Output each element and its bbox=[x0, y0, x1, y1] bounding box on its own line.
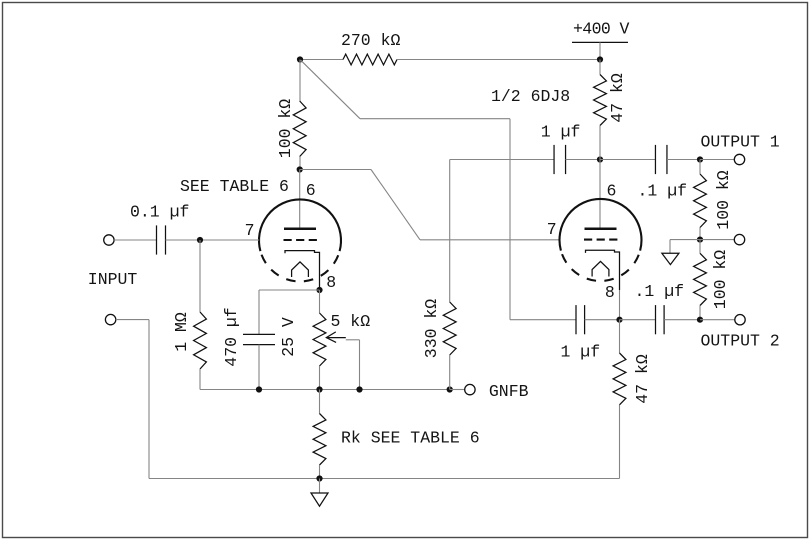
svg-text:25 V: 25 V bbox=[279, 317, 298, 357]
resistor R 47 kΩ (top) bbox=[594, 75, 607, 126]
node wiper on rail bbox=[356, 386, 362, 392]
triode U1b heater chevron bbox=[592, 261, 609, 276]
potentiometer R 5 kΩ bbox=[313, 313, 326, 366]
terminal divider center bbox=[734, 234, 744, 244]
+400 V supply bar bbox=[572, 41, 628, 43]
svg-text:8: 8 bbox=[326, 273, 336, 292]
wire rail to GNFB terminal bbox=[450, 389, 465, 391]
wire .1uf to output 2 node bbox=[664, 319, 700, 321]
wire to output 1 terminal bbox=[700, 159, 734, 161]
node 330k on rail bbox=[447, 386, 453, 392]
capacitor C .1 µf (bottom) bbox=[655, 305, 657, 334]
wire 100k bottom lead bbox=[299, 157, 301, 170]
node at +400V / 47k top bbox=[597, 56, 603, 62]
wire 270k right lead bbox=[397, 59, 600, 61]
svg-text:1 MΩ: 1 MΩ bbox=[172, 312, 191, 352]
capacitor C 1 µf (top) bbox=[553, 145, 555, 174]
input terminal 2 bbox=[105, 314, 115, 324]
node output 1 junction bbox=[697, 156, 703, 162]
wire ground stub right bbox=[670, 239, 700, 241]
wire cap to plate node bbox=[566, 159, 601, 161]
wire 47k-bottom top lead bbox=[619, 320, 621, 353]
wire 330k bottom lead bbox=[449, 355, 451, 390]
triode U1b plate bbox=[585, 227, 617, 230]
wire input2 down bbox=[148, 320, 150, 479]
node grid junction bbox=[197, 237, 203, 243]
node cathode/output junction bbox=[616, 317, 622, 323]
svg-text:270 kΩ: 270 kΩ bbox=[341, 31, 401, 50]
svg-text:8: 8 bbox=[605, 283, 615, 302]
svg-text:.1 µf: .1 µf bbox=[635, 282, 685, 301]
resistor Rk bbox=[313, 414, 326, 466]
wire 100k-lower top lead bbox=[699, 240, 701, 254]
node divider center bbox=[697, 237, 703, 243]
svg-text:7: 7 bbox=[547, 220, 557, 239]
wire cap to grid node bbox=[166, 239, 260, 241]
node Rk bottom rail bbox=[316, 475, 322, 481]
svg-text:1/2 6DJ8: 1/2 6DJ8 bbox=[491, 87, 570, 106]
node right plate junction bbox=[597, 156, 603, 162]
wire 100k-upper bottom lead bbox=[699, 228, 701, 240]
node at top of 100k (junction 270k/100k/bootstrap) bbox=[297, 56, 303, 62]
resistor R 270 kΩ bbox=[343, 54, 397, 65]
wire 270k left lead bbox=[300, 59, 343, 61]
capacitor C1 0.1 µf bbox=[156, 225, 158, 254]
terminal OUTPUT 2 bbox=[735, 315, 745, 325]
wire right plate lead bbox=[599, 160, 601, 229]
triode U1a grid (dashed) bbox=[284, 239, 318, 241]
wire 100k top lead bbox=[299, 60, 301, 102]
svg-text:100 kΩ: 100 kΩ bbox=[276, 99, 295, 159]
resistor R 1 MΩ bbox=[194, 312, 207, 369]
triode U1b cathode bbox=[586, 250, 620, 290]
wire down to 470uf bbox=[258, 290, 260, 334]
svg-text:Rk SEE TABLE 6: Rk SEE TABLE 6 bbox=[341, 429, 480, 448]
wire ground stub bbox=[319, 479, 321, 494]
terminal GNFB bbox=[465, 384, 475, 394]
wire to output 2 terminal bbox=[700, 319, 735, 321]
ground symbol (bottom) bbox=[311, 493, 328, 506]
wire bootstrap vertical bbox=[509, 119, 511, 320]
svg-text:OUTPUT 1: OUTPUT 1 bbox=[701, 133, 780, 152]
svg-text:6: 6 bbox=[306, 181, 316, 200]
wire to right tube grid pin 7 bbox=[420, 239, 560, 241]
wire input2 right bbox=[116, 319, 149, 321]
triode U1a plate bbox=[284, 227, 316, 230]
resistor R 47 kΩ (bottom) bbox=[613, 353, 626, 405]
triode U1a envelope bbox=[259, 199, 341, 251]
svg-text:+400 V: +400 V bbox=[573, 20, 630, 39]
wire pot bottom lead bbox=[319, 366, 321, 390]
resistor R 100 kΩ (left) bbox=[293, 101, 306, 157]
wire bottom rail up to 47k bbox=[619, 405, 621, 479]
potentiometer wiper arrow bbox=[326, 332, 336, 343]
capacitor C 470 µf bbox=[243, 333, 275, 335]
svg-text:1 µf: 1 µf bbox=[561, 343, 601, 362]
wire plate node to .1uf bbox=[600, 159, 656, 161]
wire .1uf to output node bbox=[667, 159, 700, 161]
svg-text:47 kΩ: 47 kΩ bbox=[608, 73, 627, 123]
wire to center terminal bbox=[700, 239, 734, 241]
capacitor C 1 µf (bottom) bbox=[575, 305, 577, 334]
svg-text:7: 7 bbox=[245, 221, 255, 240]
svg-text:100 kΩ: 100 kΩ bbox=[711, 250, 730, 310]
wire plate node right bbox=[300, 169, 371, 171]
input terminal 1 bbox=[104, 235, 114, 245]
wire 470uf bottom lead bbox=[258, 345, 260, 390]
wire 1uf to cathode node bbox=[585, 319, 620, 321]
wire cathode rail bbox=[200, 389, 450, 391]
wire Rk bottom lead bbox=[319, 465, 321, 479]
wire bootstrap horizontal bbox=[360, 118, 510, 120]
wire 1M top lead bbox=[199, 240, 201, 312]
wire left plate lead bbox=[299, 170, 301, 229]
node 470uf on rail bbox=[256, 386, 262, 392]
wire bottom rail bbox=[149, 478, 620, 480]
wire top rail left bbox=[450, 159, 554, 161]
triode U1b grid (dashed) bbox=[584, 239, 618, 241]
svg-text:330 kΩ: 330 kΩ bbox=[422, 299, 441, 359]
svg-text:OUTPUT 2: OUTPUT 2 bbox=[701, 332, 780, 351]
wire 330k top lead bbox=[449, 160, 451, 303]
svg-text:47 kΩ: 47 kΩ bbox=[633, 354, 652, 404]
node output 2 junction bbox=[697, 317, 703, 323]
wire +400V to node bbox=[599, 42, 601, 59]
wire 1M bottom lead bbox=[199, 369, 201, 390]
resistor R 100 kΩ (lower right) bbox=[694, 253, 707, 305]
svg-text:5 kΩ: 5 kΩ bbox=[331, 312, 371, 331]
triode U1a cathode bbox=[285, 251, 320, 290]
wire input to cap bbox=[114, 239, 156, 241]
wire bootstrap diagonal bbox=[301, 60, 360, 118]
svg-text:SEE TABLE 6: SEE TABLE 6 bbox=[180, 177, 289, 196]
wire 47k top lead bbox=[599, 60, 601, 75]
svg-text:470 µf: 470 µf bbox=[222, 307, 241, 366]
wire Rk top lead bbox=[319, 390, 321, 414]
wire cathode node left bbox=[259, 289, 320, 291]
wire right cathode down bbox=[619, 290, 621, 320]
terminal OUTPUT 1 bbox=[734, 154, 744, 164]
node pot on rail bbox=[316, 386, 322, 392]
wire cathode node to .1uf bbox=[620, 319, 656, 321]
svg-text:1 µf: 1 µf bbox=[541, 123, 581, 142]
wire 100k-lower bottom lead bbox=[699, 306, 701, 320]
node cathode pin 8 bbox=[316, 287, 322, 293]
svg-text:GNFB: GNFB bbox=[489, 382, 529, 401]
triode U1a heater chevron bbox=[292, 262, 309, 277]
svg-text:.1 µf: .1 µf bbox=[638, 181, 688, 200]
node left plate junction bbox=[297, 166, 303, 172]
wire 47k bottom lead bbox=[599, 126, 601, 160]
wire bootstrap to 1uf cap bbox=[510, 319, 576, 321]
wire wiper to rail bbox=[346, 339, 360, 341]
wire diagonal to right grid bbox=[371, 170, 420, 240]
svg-text:0.1 µf: 0.1 µf bbox=[130, 203, 189, 222]
wire 100k-upper top lead bbox=[699, 160, 701, 175]
ground symbol (right) bbox=[662, 253, 679, 264]
svg-text:INPUT: INPUT bbox=[88, 270, 138, 289]
capacitor C .1 µf (top) bbox=[654, 145, 656, 174]
triode U1b envelope bbox=[560, 199, 642, 251]
svg-text:6: 6 bbox=[607, 181, 617, 200]
svg-text:100 kΩ: 100 kΩ bbox=[714, 170, 733, 230]
wire pot top lead bbox=[319, 290, 321, 313]
resistor R 330 kΩ bbox=[443, 302, 456, 355]
resistor R 100 kΩ (upper right) bbox=[694, 174, 707, 228]
